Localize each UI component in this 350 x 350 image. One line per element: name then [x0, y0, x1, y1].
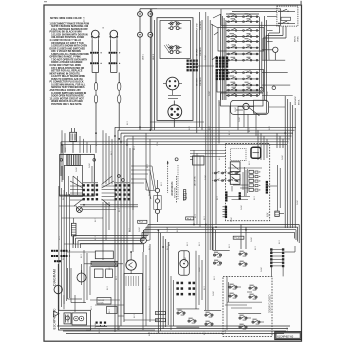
left area cross wires	[59, 195, 143, 252]
bank top ties	[226, 13, 259, 15]
svg-text:OFF. V VIOLET BR BROWN: OFF. V VIOLET BR BROWN	[51, 51, 81, 53]
svg-text:LINE 1: LINE 1	[143, 53, 145, 60]
label box P1-10	[233, 236, 244, 239]
mid verticals	[194, 150, 200, 227]
switch contact	[205, 312, 213, 318]
lock motor box	[179, 251, 190, 276]
paper tint	[44, 5, 302, 341]
latch dashed link	[176, 176, 178, 203]
wire	[218, 100, 220, 144]
door switch cluster C	[238, 314, 261, 330]
convection motor	[126, 260, 136, 270]
corner tick	[44, 1, 47, 2]
door box left wires	[225, 276, 252, 330]
svg-text:SWITCH NC: SWITCH NC	[175, 187, 177, 198]
harness left drops	[115, 127, 133, 332]
wire	[284, 251, 295, 253]
svg-text:BK-1: BK-1	[134, 146, 136, 150]
sensor fan wires	[131, 166, 156, 199]
svg-text:W-BK: W-BK	[199, 267, 201, 272]
wire	[193, 65, 214, 67]
svg-text:BK-1: BK-1	[95, 218, 97, 222]
control board A2K dashed outline	[226, 144, 270, 221]
svg-text:OPERATING RANGE. P PINK: OPERATING RANGE. P PINK	[50, 56, 82, 59]
svg-text:BK-1: BK-1	[189, 126, 191, 130]
svg-text:BK-1: BK-1	[254, 196, 256, 200]
wire L2 drop	[149, 37, 151, 130]
wire	[110, 54, 112, 62]
svg-text:W-BK: W-BK	[225, 329, 227, 334]
svg-text:12.LOCK MOTOR CIRCUIT HOT: 12.LOCK MOTOR CIRCUIT HOT	[50, 98, 85, 100]
svg-text:BK-1: BK-1	[217, 196, 219, 200]
door box internal ties	[227, 287, 264, 322]
far-left long verticals	[206, 12, 212, 310]
svg-text:POSITION ONLY. SEE NOTE.: POSITION ONLY. SEE NOTE.	[51, 104, 82, 106]
wire top tie	[157, 8, 221, 10]
svg-text:BK-1: BK-1	[127, 121, 129, 125]
svg-text:SUPPLY BEFORE SERVICING UNI: SUPPLY BEFORE SERVICING UNI	[51, 26, 88, 28]
connector row	[109, 62, 121, 64]
bank right outer bus	[263, 16, 265, 100]
bank group box 2	[218, 28, 264, 52]
wire	[173, 101, 175, 106]
svg-text:BK-1: BK-1	[149, 286, 151, 290]
svg-text:W-BK: W-BK	[213, 291, 215, 296]
relay block 1	[64, 313, 71, 324]
P3 label box	[107, 307, 118, 314]
bank left bus	[220, 14, 222, 100]
wire	[95, 130, 97, 153]
upper right corner wires	[263, 33, 269, 60]
svg-text:W-BK: W-BK	[241, 205, 243, 210]
svg-text:BK-1: BK-1	[255, 246, 257, 250]
svg-text:W-BK: W-BK	[261, 267, 263, 272]
bank right bus	[259, 17, 261, 96]
svg-text:BK-1: BK-1	[187, 242, 189, 246]
indicator lamp A	[91, 30, 100, 51]
svg-text:A2K: A2K	[267, 212, 270, 217]
svg-text:BK-1: BK-1	[109, 309, 111, 313]
wire	[145, 133, 147, 190]
switch contact	[249, 294, 257, 300]
harness feeder lines	[190, 150, 226, 152]
terminal fan wires	[70, 186, 116, 200]
junction dots	[61, 126, 286, 253]
svg-text:6.REPLACE ALL PANELS BEFORE: 6.REPLACE ALL PANELS BEFORE	[51, 53, 89, 56]
element sub boxes	[94, 269, 103, 278]
left wire bundle	[59, 186, 69, 310]
oven lamp circle	[238, 103, 254, 110]
svg-text:BROIL: BROIL	[295, 35, 297, 42]
svg-text:W-BK: W-BK	[267, 91, 269, 96]
svg-text:W-BK: W-BK	[251, 237, 253, 242]
svg-text:W-BK: W-BK	[239, 117, 241, 122]
svg-text:BK-1: BK-1	[63, 196, 65, 200]
svg-text:BK-1: BK-1	[249, 161, 251, 165]
svg-text:W-BK: W-BK	[297, 200, 299, 205]
wire	[91, 54, 93, 62]
wire	[262, 49, 273, 51]
door switch cluster B	[249, 285, 257, 300]
switch contact	[239, 251, 247, 257]
corner tick	[301, 1, 302, 4]
svg-text:W-BK: W-BK	[157, 141, 159, 146]
broil element bar	[91, 261, 118, 266]
svg-text:W-BK: W-BK	[205, 175, 207, 180]
svg-text:W-BK: W-BK	[231, 217, 233, 222]
relay box RB	[175, 156, 204, 165]
svg-text:W-BK: W-BK	[185, 257, 187, 262]
connector row	[90, 52, 102, 54]
wire	[151, 9, 153, 130]
bank group box 3	[217, 70, 264, 93]
svg-text:4.1 GREY BU BLUE Y YELLO: 4.1 GREY BU BLUE Y YELLO	[50, 39, 82, 42]
right mid connector wires	[171, 251, 202, 330]
wire L1 drop	[139, 37, 141, 130]
wire	[73, 218, 75, 223]
svg-text:POSITION. BK BLACK W WHI: POSITION. BK BLACK W WHI	[50, 31, 83, 34]
svg-text:W-BK: W-BK	[287, 327, 289, 332]
board connector dark bar	[266, 181, 268, 194]
extra wire code labels	[65, 55, 299, 334]
latch dashed arrow	[167, 161, 169, 194]
bottom mid wires	[118, 244, 158, 330]
board relay K2	[230, 162, 240, 172]
resistor box	[95, 251, 113, 259]
svg-text:BROIL: BROIL	[298, 99, 300, 105]
wire	[95, 103, 97, 130]
clock feeder wires	[62, 130, 91, 153]
terminal circle	[138, 12, 143, 17]
svg-text:2.ALL SWITCHES SHOWN IN OFF: 2.ALL SWITCHES SHOWN IN OFF	[51, 28, 88, 31]
surface switch box	[157, 18, 193, 121]
connector row	[109, 52, 121, 54]
bottom-left extra wires	[58, 250, 155, 330]
svg-text:BK-1: BK-1	[63, 256, 65, 260]
motor box hatch	[126, 276, 139, 286]
svg-text:BK-1: BK-1	[99, 329, 101, 333]
switch contact	[229, 284, 237, 290]
fan motor M1	[77, 207, 83, 213]
bake rounded box	[231, 100, 269, 114]
lower harness mid drops	[213, 225, 246, 251]
svg-text:BK-1: BK-1	[81, 254, 83, 258]
label box P2-4	[155, 312, 165, 315]
terminal block TB1	[82, 182, 98, 200]
plug connector	[70, 128, 77, 141]
svg-text:10.SEE MINI MANUAL FOR ALL: 10.SEE MINI MANUAL FOR ALL	[51, 84, 86, 87]
board relay K3	[230, 175, 240, 185]
svg-text:BK-1: BK-1	[161, 182, 163, 186]
svg-text:W-BK: W-BK	[282, 155, 284, 160]
inner box	[160, 21, 191, 59]
svg-text:7.DO NOT OPERATE OVEN WITH: 7.DO NOT OPERATE OVEN WITH	[51, 58, 87, 61]
svg-text:LF UNIT: LF UNIT	[197, 22, 199, 30]
relay contacts	[278, 9, 295, 24]
svg-text:BK-1: BK-1	[116, 276, 118, 280]
svg-text:DOOR CLOSED AND SWITCHED: DOOR CLOSED AND SWITCHED	[50, 47, 86, 50]
door lock label box	[97, 298, 111, 305]
svg-text:W-BK: W-BK	[76, 167, 78, 172]
svg-text:BK-1: BK-1	[204, 331, 206, 335]
switch contact	[229, 293, 237, 299]
svg-text:P1 CONNECTOR PLUG BLOCK: P1 CONNECTOR PLUG BLOCK	[50, 82, 84, 84]
wire	[154, 20, 156, 130]
main harness	[61, 127, 296, 144]
wire	[282, 267, 284, 277]
terminal grid diagonals	[70, 176, 114, 206]
latch motor switch cluster	[204, 311, 221, 327]
svg-text:SERVICE TEST PROCEDURES: SERVICE TEST PROCEDURES	[51, 87, 85, 89]
left elbow wires	[68, 268, 87, 303]
top right dashed relay box	[277, 6, 298, 26]
misc tiny labels	[59, 121, 281, 336]
board connector dark bar 3	[223, 206, 228, 218]
bake box inner rect	[253, 100, 266, 113]
oven switch rotary S3	[163, 77, 182, 95]
wire	[196, 30, 198, 133]
svg-text:105 C INSULATION RATED OR: 105 C INSULATION RATED OR	[51, 67, 84, 70]
switch contact	[252, 319, 260, 325]
board connector dark bar 4	[239, 192, 241, 200]
svg-text:BK-1: BK-1	[204, 286, 206, 290]
svg-text:BK-1: BK-1	[229, 131, 231, 135]
board relay contacts row 2	[212, 179, 240, 182]
switch contact	[213, 252, 221, 258]
terminal circle	[148, 12, 153, 17]
wire	[118, 73, 120, 83]
svg-text:3.CLOCK SHOWN WITH DOOR IN: 3.CLOCK SHOWN WITH DOOR IN	[51, 34, 88, 36]
svg-text:OVEN: OVEN	[298, 36, 300, 42]
svg-text:9.CAVITY RELAY BOARD WIRE: 9.CAVITY RELAY BOARD WIRE	[51, 75, 85, 78]
bundle ties	[262, 59, 285, 61]
wire	[139, 9, 141, 12]
label box P4-3	[138, 220, 147, 223]
svg-text:BK-1: BK-1	[109, 266, 111, 270]
svg-text:NOTES: WIRE CODE COL: NOTES: WIRE CODE COLOR	[50, 18, 82, 20]
wire	[168, 95, 181, 97]
lamp tie wire	[91, 64, 93, 72]
wire	[215, 70, 217, 224]
svg-text:W-BK: W-BK	[89, 163, 91, 168]
connector columns	[270, 248, 284, 267]
svg-text:BK-1: BK-1	[209, 126, 211, 130]
wire	[142, 230, 144, 237]
switch contact	[205, 321, 213, 327]
indicator lamp B	[109, 30, 118, 51]
board relay K1	[251, 147, 261, 158]
board feed corners	[258, 130, 267, 160]
center-left vertical wires	[103, 130, 112, 260]
relay block 2	[72, 313, 87, 325]
wire	[130, 252, 132, 260]
switch contact	[239, 324, 247, 330]
probe circle	[140, 237, 146, 243]
warning triangle	[54, 311, 60, 317]
svg-text:BK-1: BK-1	[147, 164, 149, 168]
svg-text:LOCK: LOCK	[98, 303, 104, 305]
hatch element	[164, 44, 173, 52]
door switch cluster A	[228, 282, 237, 302]
svg-text:5.CIRCUITS SHOWN WITH OVEN: 5.CIRCUITS SHOWN WITH OVEN	[51, 46, 87, 48]
fusible link	[94, 82, 97, 104]
svg-text:BK-1: BK-1	[149, 332, 151, 336]
svg-text:BK-1: BK-1	[129, 196, 131, 200]
wire	[149, 139, 151, 240]
clock box	[60, 154, 96, 196]
wire	[72, 141, 74, 153]
wire	[199, 12, 201, 127]
svg-text:AND TROUBLE CODES LIST.: AND TROUBLE CODES LIST.	[50, 89, 82, 92]
door switch cluster D	[252, 319, 260, 325]
svg-text:BK-1: BK-1	[129, 228, 131, 232]
wire	[95, 73, 97, 83]
sensor chain	[154, 180, 161, 222]
terminal circle	[138, 32, 143, 37]
harness right drops	[277, 133, 283, 148]
connector stub right	[275, 211, 284, 216]
fusible link	[118, 82, 121, 104]
resistor R1	[183, 190, 185, 200]
svg-text:61C4P457-60: 61C4P457-60	[277, 334, 294, 338]
capacitor C1	[71, 223, 76, 236]
wire	[173, 119, 175, 127]
svg-text:BK-1: BK-1	[169, 242, 171, 246]
wire	[118, 103, 120, 130]
svg-text:BK-1: BK-1	[279, 240, 281, 244]
svg-text:W-BK: W-BK	[119, 325, 121, 330]
driver array	[249, 170, 260, 191]
svg-text:WHEN DOOR IS IN LATCHED: WHEN DOOR IS IN LATCHED	[51, 100, 83, 103]
wire	[132, 136, 134, 252]
svg-text:BK-1: BK-1	[249, 128, 251, 132]
svg-text:BK-1: BK-1	[204, 216, 206, 220]
lamp circle	[54, 284, 62, 295]
notes text block	[50, 18, 90, 106]
svg-text:DOOR CLOSED: DOOR CLOSED	[268, 294, 271, 313]
wire	[95, 184, 97, 186]
svg-text:W-BK: W-BK	[139, 227, 141, 232]
bake box stub	[236, 109, 243, 111]
svg-text:BK-1: BK-1	[214, 276, 216, 280]
svg-text:BK-1: BK-1	[119, 208, 121, 212]
svg-text:MENT WIRING IN CIRCUITS.: MENT WIRING IN CIRCUITS.	[50, 73, 81, 75]
svg-text:DOOR OPEN POSITION HERE.: DOOR OPEN POSITION HERE.	[51, 96, 85, 98]
label box P1-6	[186, 217, 194, 220]
board right outer verticals	[278, 165, 281, 211]
contact component	[96, 322, 108, 327]
svg-text:BK-1: BK-1	[91, 306, 93, 310]
clock internal wires	[61, 166, 63, 182]
wire	[201, 20, 203, 130]
wire	[270, 267, 272, 277]
svg-text:W-BK: W-BK	[205, 55, 207, 60]
board dashed sub-box	[231, 149, 246, 161]
svg-text:BK-1: BK-1	[149, 246, 151, 250]
svg-text:BK-1: BK-1	[96, 142, 98, 146]
svg-text:BK-1: BK-1	[229, 244, 231, 248]
svg-text:11.DOOR SWITCHES SHOWN IN: 11.DOOR SWITCHES SHOWN IN	[51, 93, 86, 95]
clock switch bank	[226, 13, 259, 96]
pilot circle	[273, 47, 278, 52]
switch contact	[239, 261, 247, 267]
bank group box 4	[221, 93, 264, 106]
wire	[279, 26, 281, 33]
bank outer box	[221, 9, 281, 26]
door latch switch cluster 2	[239, 251, 247, 267]
terminal block TB2	[114, 182, 130, 200]
long dashed wire	[148, 332, 223, 334]
lower harness	[73, 225, 299, 249]
connector row	[51, 250, 70, 262]
svg-text:W-BK: W-BK	[167, 227, 169, 232]
svg-text:UNLOCKED POSITION. R RED: UNLOCKED POSITION. R RED	[51, 37, 84, 39]
svg-text:W-BK: W-BK	[235, 107, 237, 112]
terminal circle	[148, 32, 153, 37]
svg-text:W-BK: W-BK	[65, 147, 67, 152]
bake box diagonal	[247, 106, 259, 116]
wire	[84, 263, 91, 265]
svg-text:W-BK: W-BK	[95, 323, 97, 328]
switch contact	[213, 260, 221, 266]
svg-text:P1-10: P1-10	[234, 238, 240, 240]
door closed dashed box	[223, 276, 272, 336]
connector row	[90, 62, 102, 64]
svg-text:BK-1: BK-1	[167, 246, 169, 250]
bank left diagonals	[213, 14, 221, 18]
motor box	[124, 274, 143, 314]
connector block dark	[187, 60, 198, 72]
dashed pair	[177, 165, 179, 200]
right wire bundle	[285, 96, 295, 228]
svg-text:BK-1: BK-1	[269, 126, 271, 130]
board internal wires	[226, 167, 278, 200]
label box P2-6	[155, 319, 165, 322]
infinite switch RF	[168, 45, 182, 54]
svg-text:BK-1: BK-1	[134, 314, 136, 318]
board relay contacts row 1	[212, 171, 240, 174]
lamp circle	[77, 270, 86, 285]
svg-text:BK-1: BK-1	[177, 228, 179, 232]
lock relay outer box	[59, 310, 91, 330]
svg-text:DIAGRAM: DIAGRAM	[52, 269, 56, 286]
svg-text:BK-1: BK-1	[195, 214, 197, 218]
bottom terminal grid	[176, 282, 195, 296]
wire	[139, 16, 141, 32]
terminal bottom wires	[80, 205, 138, 207]
svg-text:BK-1: BK-1	[107, 286, 109, 290]
svg-text:RUNS TO CONTROL A2K VIA: RUNS TO CONTROL A2K VIA	[51, 78, 83, 81]
oven selector circle	[168, 105, 182, 119]
left harness corner drops	[60, 142, 62, 176]
svg-text:BK-1: BK-1	[111, 151, 113, 155]
svg-text:BK-1: BK-1	[219, 156, 221, 160]
svg-text:W-BK: W-BK	[219, 101, 221, 106]
junction circles	[117, 175, 120, 178]
switch contact	[249, 285, 257, 291]
svg-text:W-BK: W-BK	[209, 91, 211, 96]
part number box 61C4P457-60	[275, 332, 301, 340]
infinite switch LF	[168, 21, 182, 30]
svg-text:L1 L2: L1 L2	[84, 16, 86, 22]
switch circles	[260, 87, 264, 91]
svg-text:BK-1: BK-1	[199, 242, 201, 246]
svg-text:8.USE ONLY PART NO. WIRE: 8.USE ONLY PART NO. WIRE	[50, 64, 82, 67]
connector block P2 dark	[216, 57, 229, 81]
bank bottom drops	[230, 106, 256, 136]
svg-text:ELEMENT: ELEMENT	[295, 95, 297, 105]
switch contact	[188, 318, 196, 324]
